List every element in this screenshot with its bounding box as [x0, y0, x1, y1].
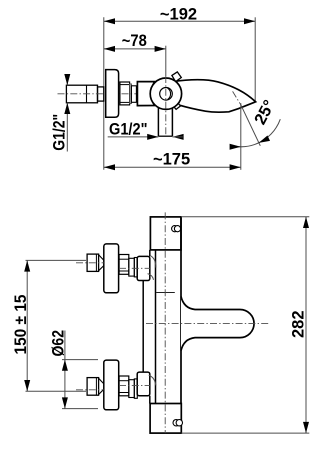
inlet pipe (side view) — [66, 85, 97, 103]
G1/2 pipe dimension arrows (left) — [66, 76, 68, 85]
handle stem inner circle — [160, 88, 173, 101]
upper axes — [76, 262, 104, 264]
dimension 282 extension lines — [181, 216, 309, 218]
body vertical axis — [164, 212, 166, 433]
svg-text:~175: ~175 — [153, 150, 190, 168]
dimension Ø62 extension lines — [62, 359, 98, 361]
vertical axis through cartridge (also ~78 extension) — [165, 46, 167, 76]
dimension 282 line — [305, 217, 307, 433]
cartridge tab top-right — [172, 72, 181, 82]
cartridge tab bottom-right — [172, 101, 181, 109]
top cap — [150, 217, 181, 250]
svg-text:~78: ~78 — [122, 32, 147, 50]
spout axis — [146, 322, 270, 324]
svg-text:150 ± 15: 150 ± 15 — [12, 295, 30, 355]
bottom sleeve — [150, 404, 181, 434]
main axis (dash-dot) of top view — [58, 93, 219, 95]
svg-text:282: 282 — [290, 310, 308, 338]
shower outlet downpipe — [157, 108, 159, 137]
G1/2 downpipe dimension — [108, 136, 148, 138]
svg-text:G1/2": G1/2" — [109, 120, 148, 138]
dimension Ø62 line — [64, 331, 66, 409]
valve body + spout outline — [137, 80, 255, 112]
svg-text:Ø62: Ø62 — [50, 330, 68, 357]
lower axes — [76, 389, 104, 391]
25 degree angle: vertical side — [240, 103, 242, 170]
connecting rib — [142, 281, 144, 373]
outlet axis dash-dot — [233, 91, 241, 104]
cap screw detail — [172, 226, 178, 232]
lower escutcheon — [104, 360, 119, 410]
extension line right of ~192 — [254, 17, 256, 101]
25 degree arc — [238, 119, 280, 147]
hose connector detail — [173, 420, 179, 426]
dimension ~78 line — [104, 48, 166, 50]
upper escutcheon — [104, 244, 119, 293]
nut (side view) — [120, 82, 130, 105]
dimension ~175 line — [104, 166, 241, 168]
centerline tick — [156, 292, 175, 294]
upper adapter — [129, 258, 135, 276]
dimension 150±15 extension lines — [26, 259, 87, 261]
25 degree angle: sloped side — [241, 105, 260, 146]
lower hex connector — [87, 378, 99, 396]
upper hex connector — [87, 254, 99, 271]
upper boss — [137, 256, 150, 280]
lower nut — [119, 376, 129, 396]
cartridge housing circle — [150, 78, 181, 109]
dimension ~192 line — [104, 20, 255, 22]
svg-text:G1/2": G1/2" — [50, 114, 68, 151]
column edges — [155, 250, 157, 404]
spout (front view) — [181, 297, 254, 351]
lower adapter — [129, 380, 135, 398]
upper nut — [119, 255, 129, 275]
washer / adapter rings — [130, 84, 132, 104]
wall plane line — [103, 17, 105, 170]
dimension 150±15 line — [26, 260, 28, 391]
body/cylinder intersection arc — [151, 82, 154, 105]
stem cam arc — [168, 88, 171, 100]
svg-text:~192: ~192 — [160, 5, 197, 23]
escutcheon (side view) — [106, 70, 119, 118]
lower boss — [137, 372, 150, 396]
